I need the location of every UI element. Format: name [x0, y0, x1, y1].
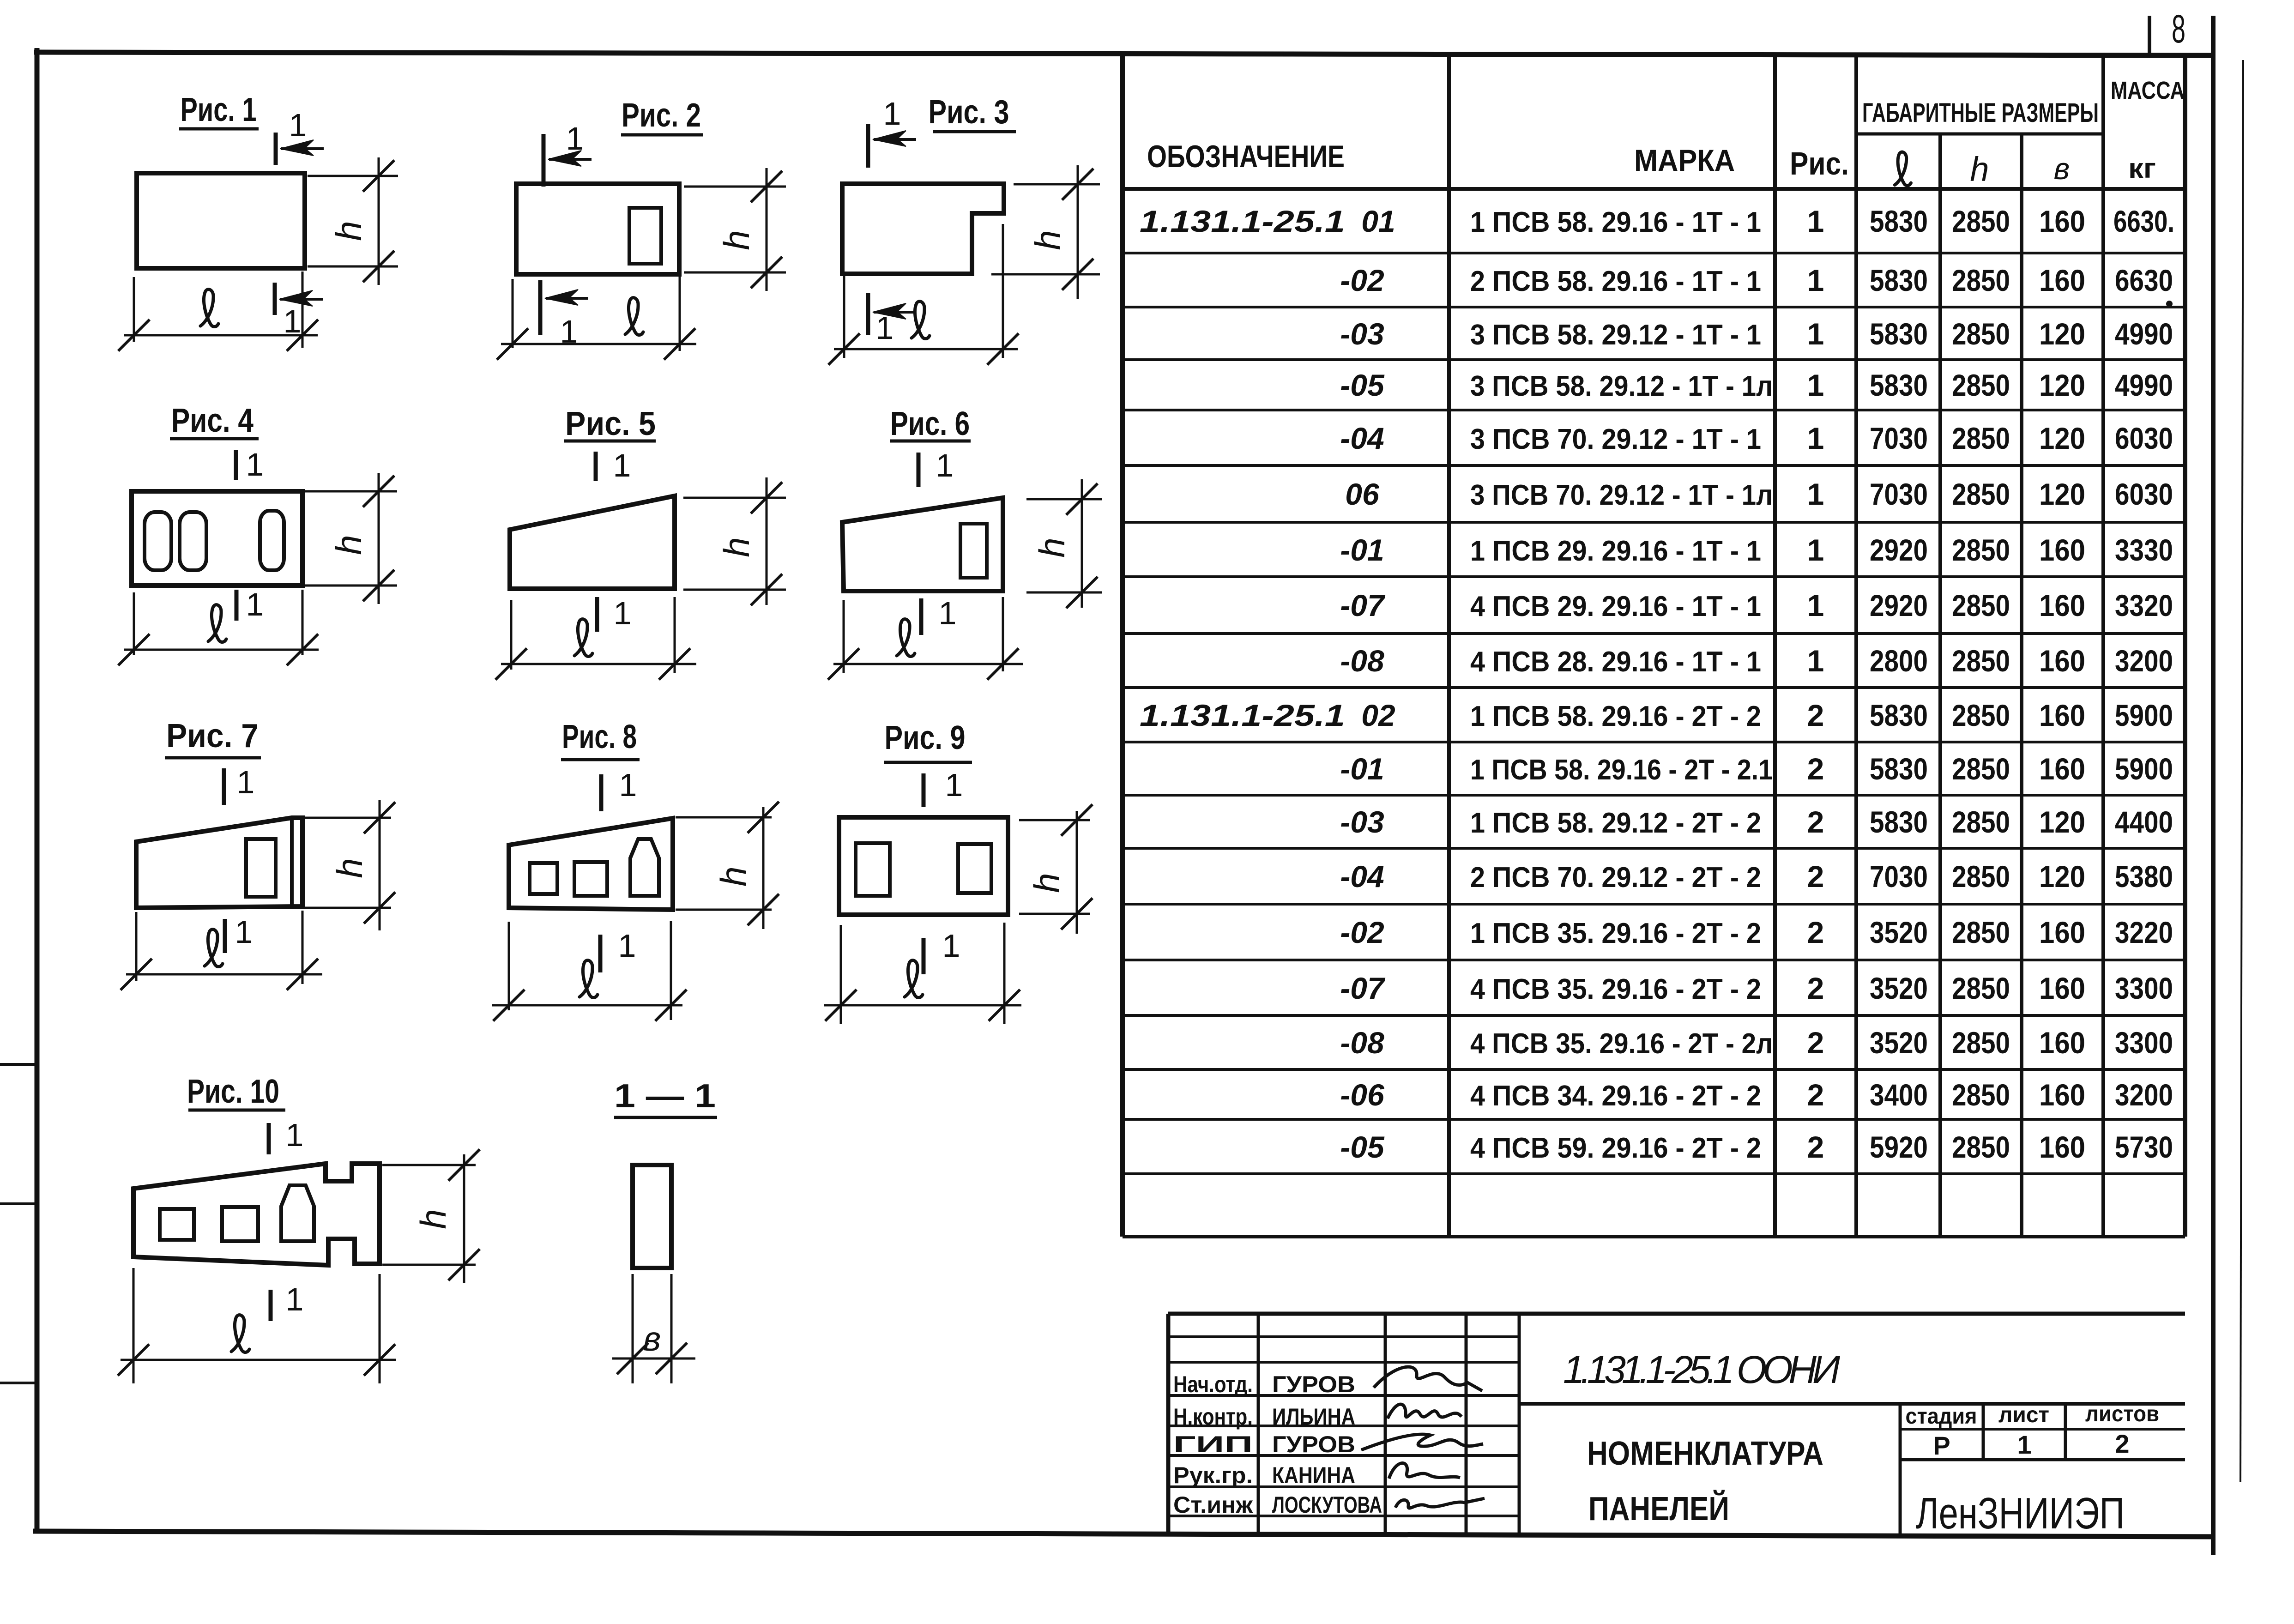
svg-text:1 ПСВ 35. 29.16 - 2Т - 2: 1 ПСВ 35. 29.16 - 2Т - 2	[1470, 918, 1761, 949]
figure Рис.2 panel outline	[516, 184, 679, 274]
table row 3: 3 ПСВ 58. 29.12 - 1Т - 1	[1340, 317, 1384, 351]
svg-text:2850: 2850	[1952, 971, 2010, 1005]
figure Рис.3 panel outline with corner notch	[842, 184, 1004, 274]
svg-text:160: 160	[2039, 971, 2085, 1005]
svg-text:1.131.1-25.1: 1.131.1-25.1	[1140, 204, 1345, 238]
svg-text:2850: 2850	[1952, 859, 2010, 894]
svg-text:2: 2	[1807, 1078, 1824, 1112]
svg-text:4990: 4990	[2115, 317, 2173, 351]
svg-text:6630: 6630	[2115, 263, 2173, 297]
svg-text:3400: 3400	[1870, 1078, 1928, 1112]
svg-text:3520: 3520	[1870, 915, 1928, 949]
svg-text:4 ПСВ 34. 29.16 - 2Т - 2: 4 ПСВ 34. 29.16 - 2Т - 2	[1470, 1080, 1761, 1112]
svg-text:4 ПСВ 29. 29.16 - 1Т - 1: 4 ПСВ 29. 29.16 - 1Т - 1	[1470, 591, 1761, 622]
signature scribble Н.контр.	[1388, 1404, 1461, 1419]
figure Рис.7 dimension ell	[135, 912, 138, 981]
svg-text:Н.контр.: Н.контр.	[1173, 1404, 1253, 1430]
title block name cell: Номенклатура панелей	[1899, 1404, 1902, 1534]
svg-text:4 ПСВ 28. 29.16 - 1Т - 1: 4 ПСВ 28. 29.16 - 1Т - 1	[1470, 646, 1761, 678]
svg-text:3300: 3300	[2115, 1026, 2173, 1060]
svg-text:3520: 3520	[1870, 1026, 1928, 1060]
svg-text:1 ПСВ 58. 29.16 - 2Т - 2.1: 1 ПСВ 58. 29.16 - 2Т - 2.1	[1470, 754, 1773, 786]
svg-text:-04: -04	[1340, 859, 1384, 894]
svg-text:160: 160	[2039, 1130, 2085, 1164]
title block стадия/лист/листов cells	[1982, 1404, 1985, 1460]
figure Рис.2 dimension ell	[512, 279, 514, 348]
svg-text:6630.: 6630.	[2113, 204, 2174, 238]
svg-text:1: 1	[246, 586, 264, 622]
figure Рис.7 inner edge line	[290, 818, 294, 907]
svg-text:2850: 2850	[1952, 1078, 2010, 1112]
svg-text:160: 160	[2039, 1078, 2085, 1112]
title block document number cell	[1519, 1402, 2185, 1406]
svg-text:1: 1	[939, 595, 957, 631]
figure Рис.4 dimension h	[305, 490, 397, 493]
svg-text:1: 1	[619, 767, 637, 803]
svg-text:2 ПСВ 70. 29.12 - 2Т - 2: 2 ПСВ 70. 29.12 - 2Т - 2	[1470, 862, 1761, 894]
svg-text:1: 1	[1807, 644, 1824, 678]
svg-text:2920: 2920	[1870, 588, 1928, 622]
svg-text:в: в	[2054, 151, 2070, 186]
svg-text:3 ПСВ 58. 29.12 - 1Т - 1: 3 ПСВ 58. 29.12 - 1Т - 1	[1470, 319, 1761, 351]
svg-text:4 ПСВ 35. 29.16 - 2Т - 2л: 4 ПСВ 35. 29.16 - 2Т - 2л	[1470, 1028, 1773, 1060]
svg-text:5900: 5900	[2115, 698, 2173, 732]
svg-text:7030: 7030	[1870, 477, 1928, 511]
figure Рис.4 window opening 2	[180, 512, 206, 570]
svg-text:1: 1	[876, 310, 894, 346]
svg-text:-07: -07	[1340, 971, 1386, 1005]
svg-text:1: 1	[1807, 368, 1824, 402]
svg-text:ИЛЬИНА: ИЛЬИНА	[1272, 1404, 1355, 1430]
figure Рис.8 section mark top	[599, 774, 604, 811]
svg-text:1: 1	[1807, 477, 1824, 511]
svg-text:5830: 5830	[1870, 204, 1928, 238]
svg-text:120: 120	[2039, 859, 2085, 894]
figure Рис.5 panel outline (trapezoid)	[510, 496, 675, 589]
svg-text:1: 1	[1807, 204, 1824, 238]
svg-text:160: 160	[2039, 644, 2085, 678]
svg-text:1.131.1-25.1 ООНИ: 1.131.1-25.1 ООНИ	[1563, 1348, 1841, 1391]
svg-text:Рук.гр.: Рук.гр.	[1173, 1462, 1253, 1488]
svg-text:160: 160	[2039, 204, 2085, 238]
svg-text:-01: -01	[1340, 752, 1384, 786]
table row 7: 1 ПСВ 29. 29.16 - 1Т - 1	[1340, 533, 1384, 567]
svg-text:160: 160	[2039, 752, 2085, 786]
svg-text:2850: 2850	[1952, 752, 2010, 786]
figure Рис.1 dimension ell	[133, 277, 135, 342]
svg-text:кг: кг	[2128, 153, 2156, 184]
svg-text:2850: 2850	[1952, 477, 2010, 511]
svg-text:2850: 2850	[1952, 204, 2010, 238]
svg-text:2850: 2850	[1952, 1130, 2010, 1164]
svg-text:160: 160	[2039, 698, 2085, 732]
svg-text:в: в	[643, 1320, 661, 1358]
svg-text:1: 1	[883, 96, 901, 132]
figure Рис.9 window opening 2	[958, 844, 991, 893]
svg-text:120: 120	[2039, 805, 2085, 839]
svg-text:-03: -03	[1340, 317, 1384, 351]
svg-text:h: h	[1027, 230, 1068, 250]
figure Рис.9 dimension ell	[840, 925, 842, 1024]
svg-text:1: 1	[2017, 1430, 2031, 1459]
svg-text:4 ПСВ 35. 29.16 - 2Т - 2: 4 ПСВ 35. 29.16 - 2Т - 2	[1470, 973, 1761, 1005]
svg-text:2850: 2850	[1952, 915, 2010, 949]
signature scribble ГИП	[1361, 1434, 1483, 1450]
figure Рис.9 panel outline	[839, 817, 1008, 915]
svg-text:1: 1	[936, 447, 954, 483]
svg-text:5830: 5830	[1870, 368, 1928, 402]
svg-text:2800: 2800	[1870, 644, 1928, 678]
left margin fold marks	[0, 1063, 37, 1066]
svg-text:-08: -08	[1340, 644, 1384, 678]
svg-text:2850: 2850	[1952, 1026, 2010, 1060]
figure Рис.6 dimension ell	[843, 600, 845, 673]
svg-text:5830: 5830	[1870, 317, 1928, 351]
svg-text:1.131.1-25.1: 1.131.1-25.1	[1140, 698, 1345, 732]
svg-text:6030: 6030	[2115, 477, 2173, 511]
table row 4: 3 ПСВ 58. 29.12 - 1Т - 1л	[1340, 368, 1385, 402]
figure Рис.1 panel outline	[137, 173, 305, 268]
figure Рис.10 dimension ell	[133, 1268, 135, 1383]
figure Рис.8 panel outline (trapezoid)	[509, 818, 673, 910]
svg-text:1: 1	[1807, 533, 1824, 567]
svg-text:1: 1	[286, 1281, 304, 1317]
svg-text:h: h	[716, 537, 757, 557]
figure Рис.6 section mark bottom	[919, 598, 924, 635]
svg-text:3 ПСВ 58. 29.12 - 1Т - 1л: 3 ПСВ 58. 29.12 - 1Т - 1л	[1470, 370, 1773, 402]
svg-text:2850: 2850	[1952, 588, 2010, 622]
figure Рис.4 dimension ell	[133, 592, 135, 655]
table row 11: 1 ПСВ 58. 29.16 - 2Т - 2.1	[1340, 752, 1384, 786]
svg-text:1: 1	[246, 447, 264, 483]
svg-text:-02: -02	[1340, 915, 1384, 949]
svg-text:1: 1	[614, 595, 632, 631]
svg-text:3520: 3520	[1870, 971, 1928, 1005]
svg-text:2: 2	[1807, 1130, 1824, 1164]
svg-text:2: 2	[1807, 971, 1824, 1005]
section 1-1 panel cross-section	[633, 1165, 671, 1268]
svg-text:2: 2	[2115, 1429, 2129, 1458]
figure Рис.10 window opening 2	[222, 1207, 258, 1241]
figure Рис.2 section mark bottom	[538, 280, 543, 335]
signature scribble Ст.инж	[1395, 1498, 1485, 1508]
svg-text:ПАНЕЛЕЙ: ПАНЕЛЕЙ	[1588, 1490, 1729, 1527]
table row 6: 3 ПСВ 70. 29.12 - 1Т - 1л	[1345, 477, 1380, 511]
svg-text:-06: -06	[1340, 1078, 1385, 1112]
svg-text:Рис. 8: Рис. 8	[562, 718, 637, 755]
svg-text:5380: 5380	[2115, 859, 2173, 894]
svg-text:Рис. 1: Рис. 1	[181, 91, 257, 128]
figure Рис.5 section mark top	[594, 452, 598, 481]
stray ink dot	[2166, 301, 2173, 307]
svg-text:2 ПСВ 58. 29.16 - 1Т - 1: 2 ПСВ 58. 29.16 - 1Т - 1	[1470, 266, 1761, 297]
svg-text:1: 1	[237, 764, 255, 800]
svg-text:1 ПСВ 29. 29.16 - 1Т - 1: 1 ПСВ 29. 29.16 - 1Т - 1	[1470, 535, 1761, 567]
svg-text:1: 1	[289, 107, 307, 143]
svg-text:ОБОЗНАЧЕНИЕ: ОБОЗНАЧЕНИЕ	[1147, 139, 1345, 174]
figure Рис.8 window opening 2	[574, 862, 607, 896]
page number 8 cell	[2148, 16, 2151, 56]
svg-text:h: h	[1970, 150, 1989, 188]
figure Рис.10 section mark top	[267, 1123, 271, 1154]
svg-text:5900: 5900	[2115, 752, 2173, 786]
svg-text:1: 1	[945, 767, 963, 803]
svg-text:7030: 7030	[1870, 859, 1928, 894]
svg-text:3200: 3200	[2115, 644, 2173, 678]
figure Рис.7 section mark top	[222, 768, 226, 805]
svg-text:4 ПСВ 59. 29.16 - 2Т - 2: 4 ПСВ 59. 29.16 - 2Т - 2	[1470, 1132, 1761, 1164]
sheet frame border	[35, 48, 40, 1532]
svg-text:2: 2	[1807, 859, 1824, 894]
svg-text:h: h	[1032, 537, 1072, 557]
figure Рис.2 window opening	[629, 208, 661, 264]
svg-text:2: 2	[1807, 1026, 1824, 1060]
svg-text:3320: 3320	[2115, 588, 2173, 622]
svg-text:120: 120	[2039, 421, 2085, 455]
figure Рис.4 section mark top	[234, 450, 238, 480]
svg-text:3 ПСВ 70. 29.12 - 1Т - 1: 3 ПСВ 70. 29.12 - 1Т - 1	[1470, 423, 1761, 455]
svg-text:1 ПСВ 58. 29.16 - 1Т - 1: 1 ПСВ 58. 29.16 - 1Т - 1	[1470, 206, 1761, 238]
svg-text:3 ПСВ 70. 29.12 - 1Т - 1л: 3 ПСВ 70. 29.12 - 1Т - 1л	[1470, 479, 1773, 511]
svg-text:Рис. 7: Рис. 7	[166, 718, 259, 755]
figure Рис.1 section mark bottom	[273, 283, 277, 315]
svg-text:h: h	[413, 1209, 453, 1229]
figure Рис.8 dimension ell	[508, 922, 510, 1010]
svg-text:ГАБАРИТНЫЕ РАЗМЕРЫ: ГАБАРИТНЫЕ РАЗМЕРЫ	[1862, 98, 2099, 128]
table row 10: 1 ПСВ 58. 29.16 - 2Т - 2	[1140, 698, 1395, 732]
table row 5: 3 ПСВ 70. 29.12 - 1Т - 1	[1340, 421, 1384, 455]
svg-text:5730: 5730	[2115, 1130, 2173, 1164]
svg-text:1 — 1: 1 — 1	[614, 1078, 716, 1115]
table row 2: 2 ПСВ 58. 29.16 - 1Т - 1	[1340, 263, 1384, 297]
svg-text:2: 2	[1807, 752, 1824, 786]
svg-text:02: 02	[1361, 698, 1395, 732]
svg-text:160: 160	[2039, 1026, 2085, 1060]
svg-text:1: 1	[618, 928, 636, 964]
svg-text:Рис. 2: Рис. 2	[622, 97, 701, 134]
svg-text:160: 160	[2039, 915, 2085, 949]
svg-text:-01: -01	[1340, 533, 1384, 567]
svg-text:Рис. 6: Рис. 6	[890, 405, 970, 442]
section 1-1 dimension в	[632, 1274, 634, 1383]
svg-text:120: 120	[2039, 368, 2085, 402]
svg-text:2850: 2850	[1952, 263, 2010, 297]
svg-text:5830: 5830	[1870, 698, 1928, 732]
table row 15: 4 ПСВ 35. 29.16 - 2Т - 2	[1340, 971, 1386, 1005]
svg-text:1: 1	[566, 121, 584, 157]
figure Рис.10 arched window opening	[281, 1185, 314, 1241]
svg-text:КАНИНА: КАНИНА	[1272, 1462, 1355, 1488]
svg-text:Рис. 5: Рис. 5	[565, 405, 656, 442]
svg-text:5830: 5830	[1870, 752, 1928, 786]
svg-text:3200: 3200	[2115, 1078, 2173, 1112]
svg-text:Рис. 4: Рис. 4	[171, 402, 254, 439]
svg-text:-05: -05	[1340, 368, 1385, 402]
figure Рис.10 dimension h	[382, 1164, 476, 1166]
table row 1: 1 ПСВ 58. 29.16 - 1Т - 1	[1140, 204, 1395, 238]
table row 12: 1 ПСВ 58. 29.12 - 2Т - 2	[1340, 805, 1384, 839]
svg-text:МАССА: МАССА	[2111, 77, 2185, 104]
svg-text:h: h	[713, 866, 754, 886]
svg-text:-02: -02	[1340, 263, 1384, 297]
svg-text:160: 160	[2039, 533, 2085, 567]
svg-text:Р: Р	[1933, 1431, 1950, 1460]
svg-text:ЛОСКУТОВА: ЛОСКУТОВА	[1272, 1492, 1382, 1518]
svg-text:8: 8	[2172, 7, 2185, 51]
figure Рис.6 window opening	[960, 524, 987, 578]
svg-text:1: 1	[1807, 317, 1824, 351]
figure Рис.3 dimension ell	[843, 276, 845, 358]
svg-text:1: 1	[1807, 421, 1824, 455]
svg-text:h: h	[328, 221, 369, 241]
table row 8: 4 ПСВ 29. 29.16 - 1Т - 1	[1340, 588, 1386, 622]
svg-text:06: 06	[1345, 477, 1380, 511]
svg-text:Рис. 3: Рис. 3	[929, 94, 1009, 131]
svg-text:120: 120	[2039, 477, 2085, 511]
svg-text:160: 160	[2039, 263, 2085, 297]
svg-text:5920: 5920	[1870, 1130, 1928, 1164]
svg-text:Рис. 10: Рис. 10	[187, 1073, 279, 1110]
svg-text:ЛенЗНИИЭП: ЛенЗНИИЭП	[1916, 1489, 2125, 1538]
svg-text:1 ПСВ 58. 29.12 - 2Т - 2: 1 ПСВ 58. 29.12 - 2Т - 2	[1470, 807, 1761, 839]
figure Рис.7 window opening	[246, 839, 276, 897]
svg-text:-07: -07	[1340, 588, 1386, 622]
svg-text:01: 01	[1361, 204, 1395, 238]
svg-text:2850: 2850	[1952, 698, 2010, 732]
figure Рис.1 dimension h	[308, 175, 398, 177]
figure Рис.10 panel outline with notches	[133, 1164, 380, 1265]
svg-text:Рис. 9: Рис. 9	[885, 719, 966, 756]
svg-text:h: h	[328, 535, 369, 555]
figure Рис.5 section mark bottom	[595, 597, 599, 632]
svg-text:4990: 4990	[2115, 368, 2173, 402]
figure Рис.6 panel outline (trapezoid)	[842, 498, 1003, 591]
figure Рис.8 section mark bottom	[598, 935, 603, 972]
svg-text:2: 2	[1807, 698, 1824, 732]
table row 18: 4 ПСВ 59. 29.16 - 2Т - 2	[1340, 1130, 1385, 1164]
table row 14: 1 ПСВ 35. 29.16 - 2Т - 2	[1340, 915, 1384, 949]
title block signature grid	[1257, 1314, 1260, 1534]
svg-text:2850: 2850	[1952, 805, 2010, 839]
svg-text:лист: лист	[1998, 1403, 2049, 1427]
figure Рис.7 dimension h	[305, 817, 391, 819]
figure Рис.2 dimension h	[684, 186, 786, 188]
figure Рис.5 dimension ell	[510, 600, 513, 670]
figure Рис.7 section mark bottom	[223, 919, 227, 953]
svg-text:листов: листов	[2085, 1402, 2159, 1426]
figure Рис.10 window opening 1	[160, 1209, 194, 1240]
figure Рис.3 section mark bottom	[866, 293, 870, 335]
figure Рис.6 section mark top	[917, 453, 921, 487]
svg-text:1: 1	[284, 303, 302, 339]
svg-text:3300: 3300	[2115, 971, 2173, 1005]
svg-text:120: 120	[2039, 317, 2085, 351]
svg-text:Ст.инж: Ст.инж	[1173, 1492, 1253, 1518]
svg-text:2850: 2850	[1952, 644, 2010, 678]
figure Рис.3 dimension h	[1014, 183, 1100, 186]
figure Рис.9 section mark top	[922, 773, 926, 807]
svg-text:2: 2	[1807, 805, 1824, 839]
signature scribble Рук.гр.	[1389, 1463, 1460, 1479]
figure Рис.8 arched window opening	[630, 839, 659, 896]
svg-text:6030: 6030	[2115, 421, 2173, 455]
svg-text:5830: 5830	[1870, 263, 1928, 297]
svg-text:5830: 5830	[1870, 805, 1928, 839]
svg-text:3220: 3220	[2115, 915, 2173, 949]
figure Рис.9 window opening 1	[856, 843, 890, 896]
svg-text:1: 1	[613, 447, 631, 483]
svg-text:2850: 2850	[1952, 533, 2010, 567]
figure Рис.9 dimension h	[1019, 819, 1090, 821]
svg-text:2850: 2850	[1952, 421, 2010, 455]
figure Рис.4 section mark bottom	[235, 590, 239, 621]
figure Рис.8 window opening 1	[530, 863, 557, 894]
svg-text:-08: -08	[1340, 1026, 1384, 1060]
figure Рис.3 section mark top	[866, 124, 870, 168]
sheet edge line right	[2240, 60, 2243, 1482]
svg-text:h: h	[716, 230, 757, 250]
svg-text:4400: 4400	[2115, 805, 2173, 839]
figure Рис.4 window opening 3	[260, 511, 284, 570]
svg-text:-05: -05	[1340, 1130, 1385, 1164]
svg-text:7030: 7030	[1870, 421, 1928, 455]
svg-text:2920: 2920	[1870, 533, 1928, 567]
svg-text:1: 1	[942, 928, 960, 964]
svg-text:1: 1	[286, 1117, 304, 1153]
figure Рис.7 panel outline (trapezoid, double edge)	[136, 818, 302, 908]
table row 9: 4 ПСВ 28. 29.16 - 1Т - 1	[1340, 644, 1384, 678]
svg-text:МАРКА: МАРКА	[1634, 143, 1735, 177]
svg-text:h: h	[329, 858, 370, 878]
svg-text:2: 2	[1807, 915, 1824, 949]
svg-text:ГУРОВ: ГУРОВ	[1272, 1371, 1355, 1397]
svg-text:-03: -03	[1340, 805, 1384, 839]
figure Рис.1 section mark top	[274, 133, 278, 165]
figure Рис.5 dimension h	[683, 497, 786, 499]
figure Рис.4 window opening 1	[145, 512, 171, 570]
svg-text:3330: 3330	[2115, 533, 2173, 567]
svg-text:Рис.: Рис.	[1790, 145, 1849, 181]
svg-text:160: 160	[2039, 588, 2085, 622]
figure Рис.9 section mark bottom	[922, 938, 926, 974]
svg-text:стадия: стадия	[1906, 1404, 1977, 1429]
nomenclature table grid	[1120, 54, 1125, 1237]
svg-text:ГУРОВ: ГУРОВ	[1272, 1431, 1355, 1457]
table row 13: 2 ПСВ 70. 29.12 - 2Т - 2	[1340, 859, 1384, 894]
figure Рис.4 panel outline	[132, 491, 302, 586]
figure Рис.8 dimension h	[676, 816, 772, 819]
svg-text:Нач.отд.: Нач.отд.	[1173, 1371, 1253, 1397]
svg-text:-04: -04	[1340, 421, 1384, 455]
svg-text:1 ПСВ 58. 29.16 - 2Т - 2: 1 ПСВ 58. 29.16 - 2Т - 2	[1470, 700, 1761, 732]
svg-text:1: 1	[1807, 588, 1824, 622]
svg-text:НОМЕНКЛАТУРА: НОМЕНКЛАТУРА	[1587, 1435, 1823, 1472]
svg-text:1: 1	[235, 914, 253, 950]
table row 17: 4 ПСВ 34. 29.16 - 2Т - 2	[1340, 1078, 1385, 1112]
svg-text:2850: 2850	[1952, 317, 2010, 351]
table row 16: 4 ПСВ 35. 29.16 - 2Т - 2л	[1340, 1026, 1384, 1060]
svg-text:1: 1	[1807, 263, 1824, 297]
title block frame	[1168, 1312, 2185, 1316]
signature scribble Нач.отд.	[1374, 1367, 1482, 1391]
svg-text:h: h	[1026, 873, 1067, 893]
figure Рис.6 dimension h	[1026, 498, 1102, 501]
svg-text:ГИП: ГИП	[1173, 1431, 1253, 1457]
figure Рис.10 section mark bottom	[269, 1290, 273, 1321]
svg-text:2850: 2850	[1952, 368, 2010, 402]
figure Рис.2 section mark top	[542, 134, 546, 187]
